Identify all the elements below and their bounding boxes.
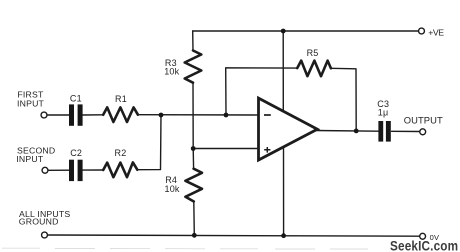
wire op-amp output to C3 [316, 130, 379, 133]
op-amp U1 [259, 98, 318, 160]
wire R4 bottom lead [193, 202, 196, 236]
svg-text:C2: C2 [70, 148, 82, 158]
resistor R3 [185, 51, 202, 83]
svg-text:INPUT: INPUT [16, 154, 44, 164]
wire R1 to op-amp inverting input [138, 114, 259, 116]
svg-text:+VE: +VE [428, 27, 444, 37]
svg-text:10k: 10k [165, 184, 180, 194]
scan artifact dotted line bottom [2, 247, 368, 250]
terminal second input [42, 167, 48, 173]
svg-text:R5: R5 [307, 48, 319, 58]
wire R3 bottom to R4 top (divider line) [192, 83, 195, 169]
svg-text:C1: C1 [70, 93, 82, 103]
svg-text:SeekIC.com: SeekIC.com [390, 237, 458, 252]
wire op-amp V- pin to bottom rail [283, 148, 285, 236]
resistor R4 [185, 169, 202, 202]
wire R3 top lead [192, 31, 194, 51]
svg-text:GROUND: GROUND [19, 216, 59, 226]
wire feedback from inverting node up [226, 68, 298, 115]
wire C2 to R2 [83, 169, 104, 171]
wire R2 to input node [137, 115, 161, 170]
svg-text:R2: R2 [115, 148, 127, 158]
capacitor C2 [69, 160, 83, 181]
wire top supply rail [193, 30, 419, 32]
node input summing junction [159, 113, 164, 118]
svg-text:10k: 10k [164, 67, 179, 77]
wire first input to C1 [47, 114, 69, 116]
resistor R2 [103, 162, 137, 177]
wire C1 to R1 [83, 114, 104, 116]
resistor R5 [297, 61, 331, 77]
capacitor C1 [69, 104, 83, 125]
svg-text:INPUT: INPUT [17, 98, 45, 108]
terminal all-inputs ground [42, 232, 48, 238]
node feedback to output [354, 129, 359, 134]
wire C3 to output terminal [392, 130, 420, 132]
wire noninverting input from divider [193, 148, 258, 150]
svg-text:R1: R1 [115, 94, 127, 104]
svg-text:OUTPUT: OUTPUT [404, 114, 443, 125]
node op-amp V- to ground rail [281, 233, 286, 238]
node R4 to ground rail [192, 233, 197, 238]
node top rail to op-amp V+ [281, 29, 286, 34]
terminal output [420, 129, 426, 135]
capacitor C3 [378, 121, 390, 142]
wire bottom ground rail [48, 235, 420, 236]
wire R5 to output node [331, 68, 356, 131]
wire second input to C2 [48, 169, 69, 171]
svg-text:1μ: 1μ [378, 107, 389, 117]
wire op-amp V+ pin from top rail [282, 31, 284, 110]
terminal first input [41, 112, 47, 118]
node divider to noninverting input [191, 146, 196, 151]
resistor R1 [103, 107, 138, 122]
terminal +VE supply [419, 28, 425, 34]
node inverting input / feedback [224, 113, 229, 118]
terminal 0V [420, 233, 426, 239]
